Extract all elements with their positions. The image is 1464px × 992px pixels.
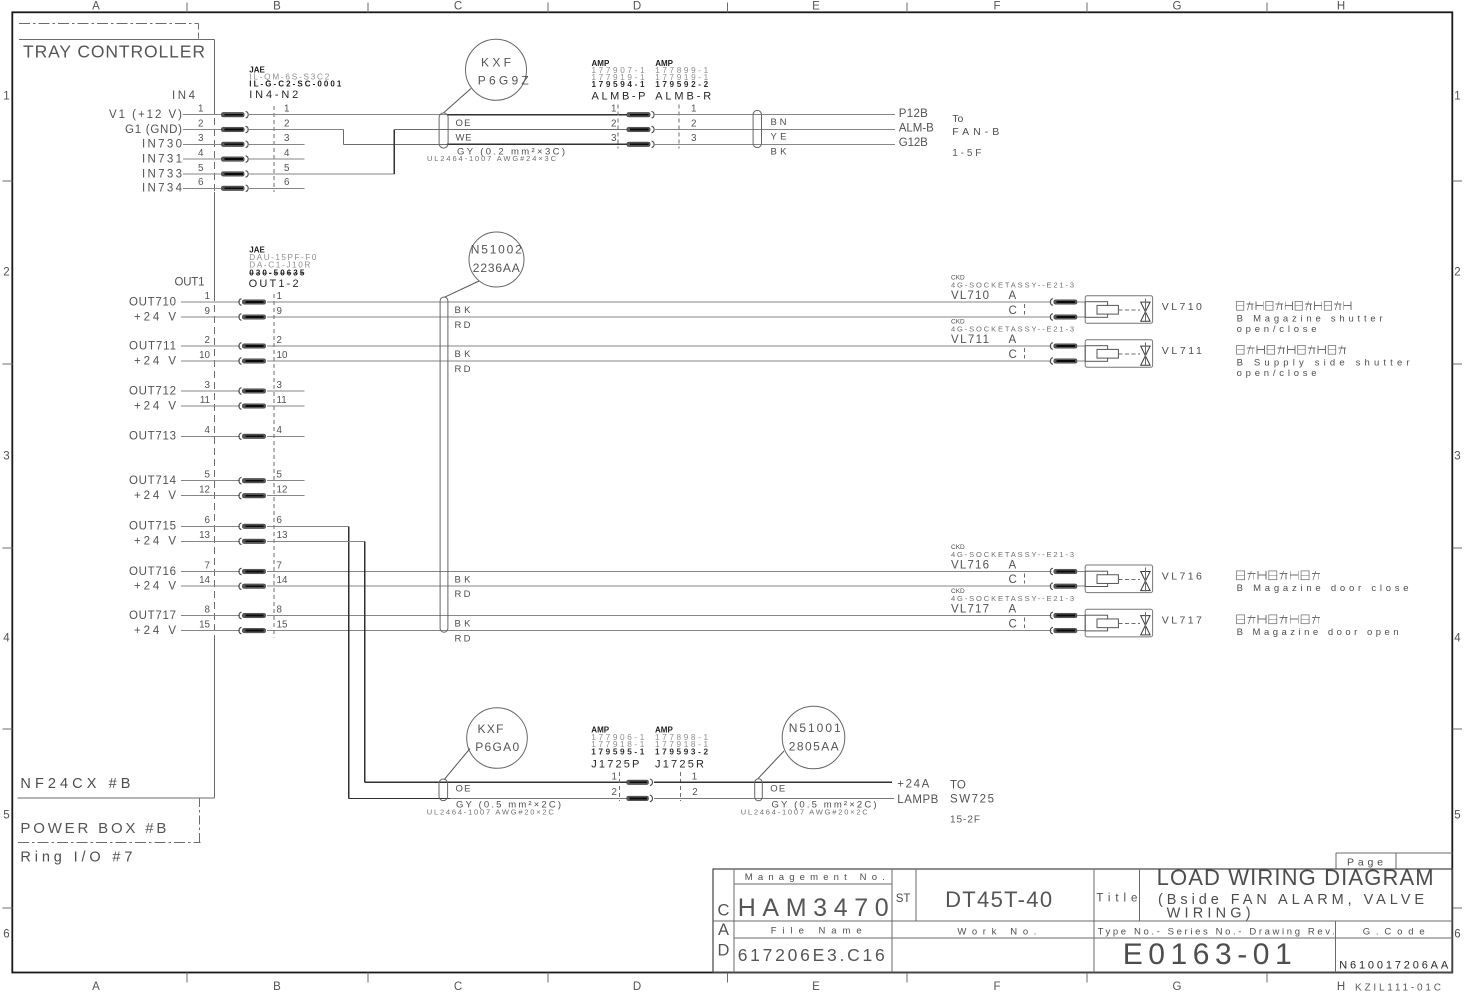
cable sheath OUT1-valves: [440, 297, 448, 632]
svg-text:E0163-01: E0163-01: [1123, 938, 1292, 971]
OUT1 pin 4 wire lead: [181, 435, 240, 437]
svg-text:7: 7: [277, 560, 282, 571]
svg-text:G: G: [1173, 981, 1182, 992]
valve VL710 CKD part labels: [951, 275, 1074, 303]
wire color BK at y582.5: [455, 575, 472, 586]
svg-text:G1 (GND): G1 (GND): [125, 124, 182, 136]
valve VL716 pin divider: [1023, 574, 1025, 584]
ALMB pin 2 numbers: [611, 118, 696, 129]
svg-text:A: A: [1009, 334, 1017, 346]
wire V1 +12V to ALMB-P pin1: [249, 114, 627, 116]
svg-text:6: 6: [277, 515, 283, 526]
valve VL710 pin C contact: [1050, 314, 1077, 321]
svg-text:1: 1: [277, 291, 282, 302]
svg-text:2: 2: [277, 335, 282, 346]
svg-text:+24 V: +24 V: [134, 400, 176, 412]
lamp cable spec GY 0.5mm: [456, 800, 561, 811]
valve VL717 pin C label: [1009, 618, 1017, 630]
wire OUT1 pin 15 to valve: [267, 630, 1051, 632]
svg-text:OUT711: OUT711: [129, 340, 176, 352]
leader to cable ALMB: [444, 89, 471, 113]
OUT1 pin 14 wire lead: [181, 585, 240, 587]
svg-text:BK: BK: [771, 146, 788, 157]
OUT1 pin 5 number: [205, 470, 283, 481]
svg-text:2: 2: [198, 118, 203, 129]
svg-text:BK: BK: [455, 619, 472, 630]
valve VL716 function text 'B Magazine door close': [1237, 583, 1409, 594]
work no header: [957, 926, 1036, 937]
svg-text:VL710: VL710: [1162, 301, 1202, 313]
svg-text:HAM3470: HAM3470: [738, 894, 889, 922]
valve VL717 pin A wire: [1077, 615, 1085, 617]
svg-text:RD: RD: [455, 634, 471, 645]
svg-text:OUT713: OUT713: [129, 431, 176, 443]
valve VL716 pin A wire: [1077, 571, 1085, 573]
IN4 pin 2 wire lead: [183, 129, 221, 131]
OUT1 pin 2 label: [129, 340, 176, 352]
valve VL717 function text 'B Magazine door open': [1237, 627, 1399, 638]
svg-text:13: 13: [277, 530, 288, 541]
wire IN734 stub: [249, 187, 305, 189]
ALMB connector boundary dashes: [618, 105, 679, 149]
svg-text:N51002: N51002: [471, 242, 522, 256]
OUT1 pin 9 number: [205, 306, 282, 317]
svg-text:C: C: [1009, 349, 1017, 361]
OUT1 pin 5 label: [129, 475, 177, 487]
svg-text:15-2F: 15-2F: [950, 814, 980, 825]
valve VL711 pin divider: [1023, 348, 1025, 359]
wire color RD at y597.2: [455, 589, 471, 600]
svg-text:P6G9Z: P6G9Z: [478, 74, 529, 88]
valve VL717 pin A contact: [1050, 612, 1077, 619]
OUT1 pin 7 contact: [239, 568, 266, 575]
svg-text:2: 2: [205, 335, 210, 346]
wire OUT1 pin 5 stub: [267, 480, 304, 482]
cable label OE: [456, 118, 471, 129]
wire color BK at y313: [455, 305, 472, 316]
OUT1 pin 7 wire lead: [181, 571, 240, 573]
svg-text:POWER BOX #B: POWER BOX #B: [20, 820, 166, 837]
OUT1 pin 10 number: [199, 350, 288, 361]
IN4 pin 1 label: [109, 109, 182, 121]
svg-text:3: 3: [277, 380, 283, 391]
svg-text:VL717: VL717: [951, 604, 989, 616]
valve VL710 reference label: [1162, 301, 1202, 313]
management no value HAM3470: [738, 894, 889, 922]
lamp cable 2 label OE: [770, 783, 785, 794]
balloon N51001 2805AA: [782, 706, 845, 769]
valve VL717 body: [1085, 609, 1152, 637]
drawing no E0163-01: [1123, 938, 1292, 971]
net P12B: [899, 108, 928, 120]
svg-text:9: 9: [205, 306, 210, 317]
connector J1725R part labels: [655, 726, 708, 771]
svg-text:FAN-B: FAN-B: [952, 126, 999, 138]
valve VL711 pin A contact: [1050, 343, 1077, 350]
net ALM-B: [899, 123, 934, 135]
IN4 pin 3 label: [142, 139, 182, 151]
svg-text:179594-1: 179594-1: [592, 80, 645, 89]
OUT1 pin 13 wire lead: [181, 540, 240, 542]
OUT1 pin 3 label: [129, 385, 176, 397]
svg-text:P6GA0: P6GA0: [475, 740, 519, 754]
svg-text:4: 4: [205, 425, 211, 436]
svg-text:+24 V: +24 V: [134, 625, 176, 637]
svg-text:N51001: N51001: [789, 721, 841, 735]
svg-text:3: 3: [3, 451, 9, 463]
svg-text:H: H: [1337, 981, 1345, 992]
ring I/O dash-dot boundary top: [19, 24, 199, 39]
svg-text:B Supply side shutter: B Supply side shutter: [1237, 357, 1410, 368]
OUT1 pin 14 label: [134, 581, 176, 593]
OUT1 pin 4 contact: [239, 433, 266, 440]
svg-text:RD: RD: [455, 364, 471, 375]
svg-text:C: C: [454, 1, 462, 13]
OUT1 pin 11 wire lead: [181, 405, 240, 407]
svg-text:LOAD WIRING DIAGRAM: LOAD WIRING DIAGRAM: [1157, 865, 1434, 890]
OUT1 pin 14 number: [199, 575, 288, 586]
OUT1 pin 5 wire lead: [181, 480, 240, 482]
J1725 pin 2 contact: [627, 795, 653, 802]
wire OUT1 pin 1 to valve: [267, 301, 1051, 303]
connector ALMB-P part labels: [592, 59, 646, 102]
svg-text:BN: BN: [771, 117, 787, 128]
svg-text:4: 4: [3, 633, 10, 645]
svg-text:3: 3: [284, 133, 290, 144]
IN4 pin 3 number: [198, 133, 290, 144]
svg-text:LAMPB: LAMPB: [897, 794, 938, 806]
svg-text:Work No.: Work No.: [957, 926, 1036, 937]
svg-text:ALMB-R: ALMB-R: [655, 91, 711, 103]
IN4 pin 2 label: [125, 124, 182, 136]
svg-text:C: C: [1009, 305, 1017, 317]
OUT1 pin 8 label: [129, 610, 176, 622]
wire ALMB pin 3 to FAN-B: [654, 143, 895, 145]
svg-text:+24A: +24A: [897, 778, 929, 790]
wire OUT1 pin 3 stub: [267, 390, 304, 392]
file name header: [771, 926, 862, 937]
OUT1 pin 2 contact: [239, 343, 266, 350]
OUT1 pin 13 contact: [239, 538, 266, 545]
IN4 pin 2 number: [198, 118, 289, 129]
OUT1 pin 15 number: [199, 620, 288, 631]
valve VL716 body: [1085, 565, 1152, 593]
svg-text:WIRING): WIRING): [1167, 906, 1251, 922]
svg-text:4G-SOCKETASSY--E21-3: 4G-SOCKETASSY--E21-3: [951, 594, 1074, 603]
valve VL710 pin divider: [1023, 304, 1025, 315]
valve VL711 pin A wire: [1077, 345, 1085, 347]
wire OUT1 pin 8 to valve: [267, 615, 1051, 617]
svg-text:5: 5: [3, 810, 9, 822]
svg-text:1: 1: [612, 772, 617, 783]
cable spec UL2464 AWG24: [427, 154, 557, 163]
IN4 pin 6 contact: [221, 185, 248, 192]
svg-text:E: E: [812, 1, 820, 13]
IN4 pin 1 wire lead: [183, 114, 221, 116]
destination sheet 15-2F: [950, 814, 980, 825]
OUT1 pin 10 wire lead: [181, 360, 240, 362]
svg-text:IN731: IN731: [142, 154, 182, 166]
svg-text:B: B: [273, 1, 281, 13]
net G12B: [899, 137, 928, 149]
wire OUT1 pin 12 stub: [267, 495, 304, 497]
svg-text:DT45T-40: DT45T-40: [945, 887, 1052, 912]
valve VL711 function text 'open/close': [1237, 368, 1317, 379]
balloon KXF P6GA0: [467, 708, 528, 769]
svg-text:3: 3: [1454, 451, 1460, 463]
title label: [1096, 893, 1137, 905]
svg-text:4G-SOCKETASSY--E21-3: 4G-SOCKETASSY--E21-3: [951, 281, 1074, 290]
svg-text:2236AA: 2236AA: [473, 261, 520, 275]
svg-text:BK: BK: [455, 305, 472, 316]
svg-text:6: 6: [1454, 929, 1460, 941]
svg-text:15: 15: [277, 620, 288, 631]
svg-text:B: B: [273, 981, 281, 992]
svg-text:F: F: [993, 981, 1000, 992]
OUT1 pin 6 wire lead: [181, 525, 240, 527]
valve VL716 pin A contact: [1050, 568, 1077, 575]
svg-text:G12B: G12B: [899, 137, 928, 149]
svg-text:BK: BK: [455, 575, 472, 586]
svg-text:WE: WE: [456, 132, 472, 143]
svg-text:2: 2: [692, 787, 697, 798]
OUT1 pin 5 contact: [239, 477, 266, 484]
svg-text:C: C: [454, 981, 462, 992]
valve VL710 pin C wire: [1077, 316, 1085, 318]
OUT1 pin 9 label: [134, 311, 176, 323]
lamp cable 2 spec GY 0.5mm: [772, 800, 877, 811]
IN4 pin 1 contact: [221, 111, 248, 118]
IN4 pin 5 contact: [221, 171, 248, 178]
OUT1 pin 12 number: [199, 485, 287, 496]
wire G1 GND jog: [249, 130, 627, 145]
svg-text:1: 1: [198, 104, 203, 115]
svg-text:5: 5: [1454, 810, 1460, 822]
svg-text:To: To: [952, 113, 963, 125]
svg-text:6: 6: [3, 929, 9, 941]
page box: [1336, 853, 1452, 869]
svg-text:Management No.: Management No.: [745, 872, 885, 883]
OUT1 pin 1 number: [205, 291, 282, 302]
wire OUT1 pin 14 to valve: [267, 585, 1051, 587]
svg-text:1-5F: 1-5F: [952, 148, 981, 159]
svg-text:OUT1-2: OUT1-2: [249, 278, 299, 290]
svg-text:KZIL111-01C: KZIL111-01C: [1355, 983, 1441, 992]
OUT1 pin 6 number: [205, 515, 283, 526]
valve VL717 pin C wire: [1077, 630, 1085, 632]
svg-text:5: 5: [198, 163, 204, 174]
svg-text:3: 3: [198, 133, 204, 144]
svg-text:OUT716: OUT716: [129, 566, 176, 578]
svg-text:5: 5: [284, 163, 290, 174]
ALMB pin 3 contact: [627, 141, 654, 148]
svg-text:OE: OE: [770, 783, 785, 794]
OUT1 pin 2 wire lead: [181, 345, 240, 347]
svg-text:ALM-B: ALM-B: [899, 123, 934, 135]
svg-text:12: 12: [277, 485, 288, 496]
svg-text:12: 12: [199, 485, 210, 496]
svg-text:IN730: IN730: [142, 139, 182, 151]
svg-text:2: 2: [611, 118, 616, 129]
wire color RD at y641.6: [455, 634, 471, 645]
valve VL711 pin C label: [1009, 349, 1017, 361]
svg-text:5: 5: [277, 470, 283, 481]
ALMB pin 2 contact: [627, 126, 654, 133]
svg-text:2805AA: 2805AA: [789, 740, 839, 754]
wire color RD at y372: [455, 364, 471, 375]
label Ring I/O #7: [20, 849, 132, 865]
svg-text:OUT1: OUT1: [175, 277, 205, 289]
OUT1 pin 10 contact: [239, 358, 266, 365]
leader to cable OUT1: [444, 281, 479, 297]
svg-text:179593-2: 179593-2: [655, 747, 708, 756]
svg-text:C: C: [718, 902, 730, 920]
OUT1 pin 9 wire lead: [181, 316, 240, 318]
svg-text:A: A: [718, 921, 729, 939]
destination To FAN-B: [952, 113, 999, 138]
svg-text:+24 V: +24 V: [134, 311, 176, 323]
svg-text:179595-1: 179595-1: [591, 747, 644, 756]
IN4 pin 6 wire lead: [183, 187, 221, 189]
connector OUT1-2 part labels: [249, 245, 317, 290]
svg-text:4G-SOCKETASSY--E21-3: 4G-SOCKETASSY--E21-3: [951, 550, 1074, 559]
svg-text:Ring I/O #7: Ring I/O #7: [20, 849, 132, 865]
IN4 pin 3 wire lead: [183, 143, 221, 145]
valve VL716 function (japanese): [1237, 571, 1320, 580]
svg-text:A: A: [1009, 290, 1017, 302]
label NF24CX #B: [20, 776, 130, 792]
OUT1 pin 15 contact: [239, 627, 266, 634]
svg-text:OUT717: OUT717: [129, 610, 176, 622]
wire color BK: [771, 146, 788, 157]
net LAMPB: [897, 794, 938, 806]
valve VL711 pin C wire: [1077, 360, 1085, 362]
J1725 connector boundary dashes: [619, 772, 680, 801]
svg-text:617206E3.C16: 617206E3.C16: [738, 945, 885, 965]
svg-text:ST: ST: [896, 893, 911, 905]
IN4 pin 6 label: [142, 183, 183, 195]
svg-text:3: 3: [205, 380, 211, 391]
svg-text:A: A: [92, 1, 100, 13]
svg-text:2: 2: [1454, 267, 1460, 279]
wire color YE: [771, 132, 787, 143]
wire +24A out: [654, 781, 892, 783]
svg-text:179592-2: 179592-2: [655, 80, 708, 89]
OUT1 pin 9 contact: [239, 314, 266, 321]
svg-text:2: 2: [612, 787, 617, 798]
connector J1725P part labels: [591, 726, 644, 771]
IN4 pin 1 number: [198, 104, 289, 115]
leader to cable lamp-2: [758, 751, 784, 779]
ring I/O dash-dot boundary bottom: [18, 798, 201, 843]
svg-text:4: 4: [284, 148, 290, 159]
label POWER BOX #B: [20, 820, 166, 837]
destination sheet 1-5F: [952, 148, 981, 159]
J1725 pin 1 contact: [627, 779, 653, 786]
svg-text:KXF: KXF: [478, 722, 504, 736]
svg-text:A: A: [92, 981, 100, 992]
svg-text:5: 5: [205, 470, 211, 481]
valve VL710 function text 'B Magazine shutter': [1237, 313, 1383, 324]
valve VL711 function (japanese): [1237, 345, 1346, 354]
valve VL717 pin C contact: [1050, 627, 1077, 634]
valve VL717 function (japanese): [1237, 615, 1320, 624]
net +24A: [897, 778, 929, 790]
svg-text:1: 1: [3, 91, 9, 103]
lamp cable 2 spec UL2464 AWG20: [741, 808, 869, 817]
cable spec GY 0.2mm: [457, 146, 565, 157]
IN4 pin 4 wire lead: [183, 158, 221, 160]
IN4 pin 3 contact: [221, 141, 248, 148]
title line 3: [1167, 906, 1251, 922]
OUT1 pin 1 wire lead: [181, 301, 240, 303]
svg-text:VL717: VL717: [1162, 614, 1202, 626]
svg-text:IN4: IN4: [172, 90, 196, 102]
svg-text:1: 1: [1454, 91, 1460, 103]
cable label WE: [456, 132, 472, 143]
valve VL710 function text 'open/close': [1237, 324, 1317, 335]
svg-text:IN4-N2: IN4-N2: [249, 89, 298, 101]
svg-text:File Name: File Name: [771, 926, 862, 937]
valve VL711 pin C contact: [1050, 358, 1077, 365]
svg-text:11: 11: [277, 395, 287, 406]
svg-text:F: F: [993, 1, 1000, 13]
valve VL716 pin C wire: [1077, 585, 1085, 587]
svg-text:13: 13: [199, 530, 210, 541]
connector ALMB-R part labels: [655, 59, 711, 102]
svg-text:8: 8: [277, 604, 283, 615]
svg-text:BK: BK: [455, 349, 472, 360]
J1725 pin 1 numbers: [612, 772, 698, 783]
title line 1: [1157, 865, 1434, 890]
valve VL717 pin divider: [1023, 618, 1025, 629]
svg-text:G.Code: G.Code: [1363, 926, 1425, 937]
svg-text:open/close: open/close: [1237, 368, 1317, 379]
svg-text:4: 4: [1454, 633, 1461, 645]
wire ALMB pin 2 to FAN-B: [654, 129, 895, 131]
OUT1 pin 13 number: [199, 530, 288, 541]
svg-text:6: 6: [205, 515, 211, 526]
svg-text:1: 1: [691, 104, 696, 115]
tray controller box: [18, 39, 215, 798]
wire OUT1 pin 11 stub: [267, 405, 304, 407]
svg-text:+24 V: +24 V: [134, 490, 176, 502]
valve VL716 pin C label: [1009, 574, 1017, 586]
IN4 pin column divider: [273, 106, 275, 192]
lamp cable label OE: [456, 783, 471, 794]
svg-text:OUT715: OUT715: [129, 521, 176, 533]
svg-text:ALMB-P: ALMB-P: [592, 91, 646, 103]
valve VL716 pin C contact: [1050, 583, 1077, 590]
svg-text:RD: RD: [455, 589, 471, 600]
valve VL717 reference label: [1162, 614, 1202, 626]
OUT1 pin 3 contact: [239, 388, 266, 395]
valve VL710 function (japanese): [1237, 301, 1352, 310]
svg-text:14: 14: [277, 575, 288, 586]
svg-text:TRAY CONTROLLER: TRAY CONTROLLER: [23, 42, 205, 62]
svg-text:E: E: [812, 981, 820, 992]
IN4 pin 4 number: [198, 148, 290, 159]
IN4 pin 4 label: [142, 154, 182, 166]
OUT1 pin 7 number: [205, 560, 282, 571]
svg-text:030-50635: 030-50635: [249, 269, 305, 278]
OUT1 pin 7 label: [129, 566, 176, 578]
wire color BN: [771, 117, 787, 128]
svg-text:4: 4: [277, 425, 283, 436]
OUT1 pin 6 contact: [239, 523, 266, 530]
connector IN4-N2 part labels: [249, 66, 342, 102]
valve VL711 reference label: [1162, 345, 1202, 357]
